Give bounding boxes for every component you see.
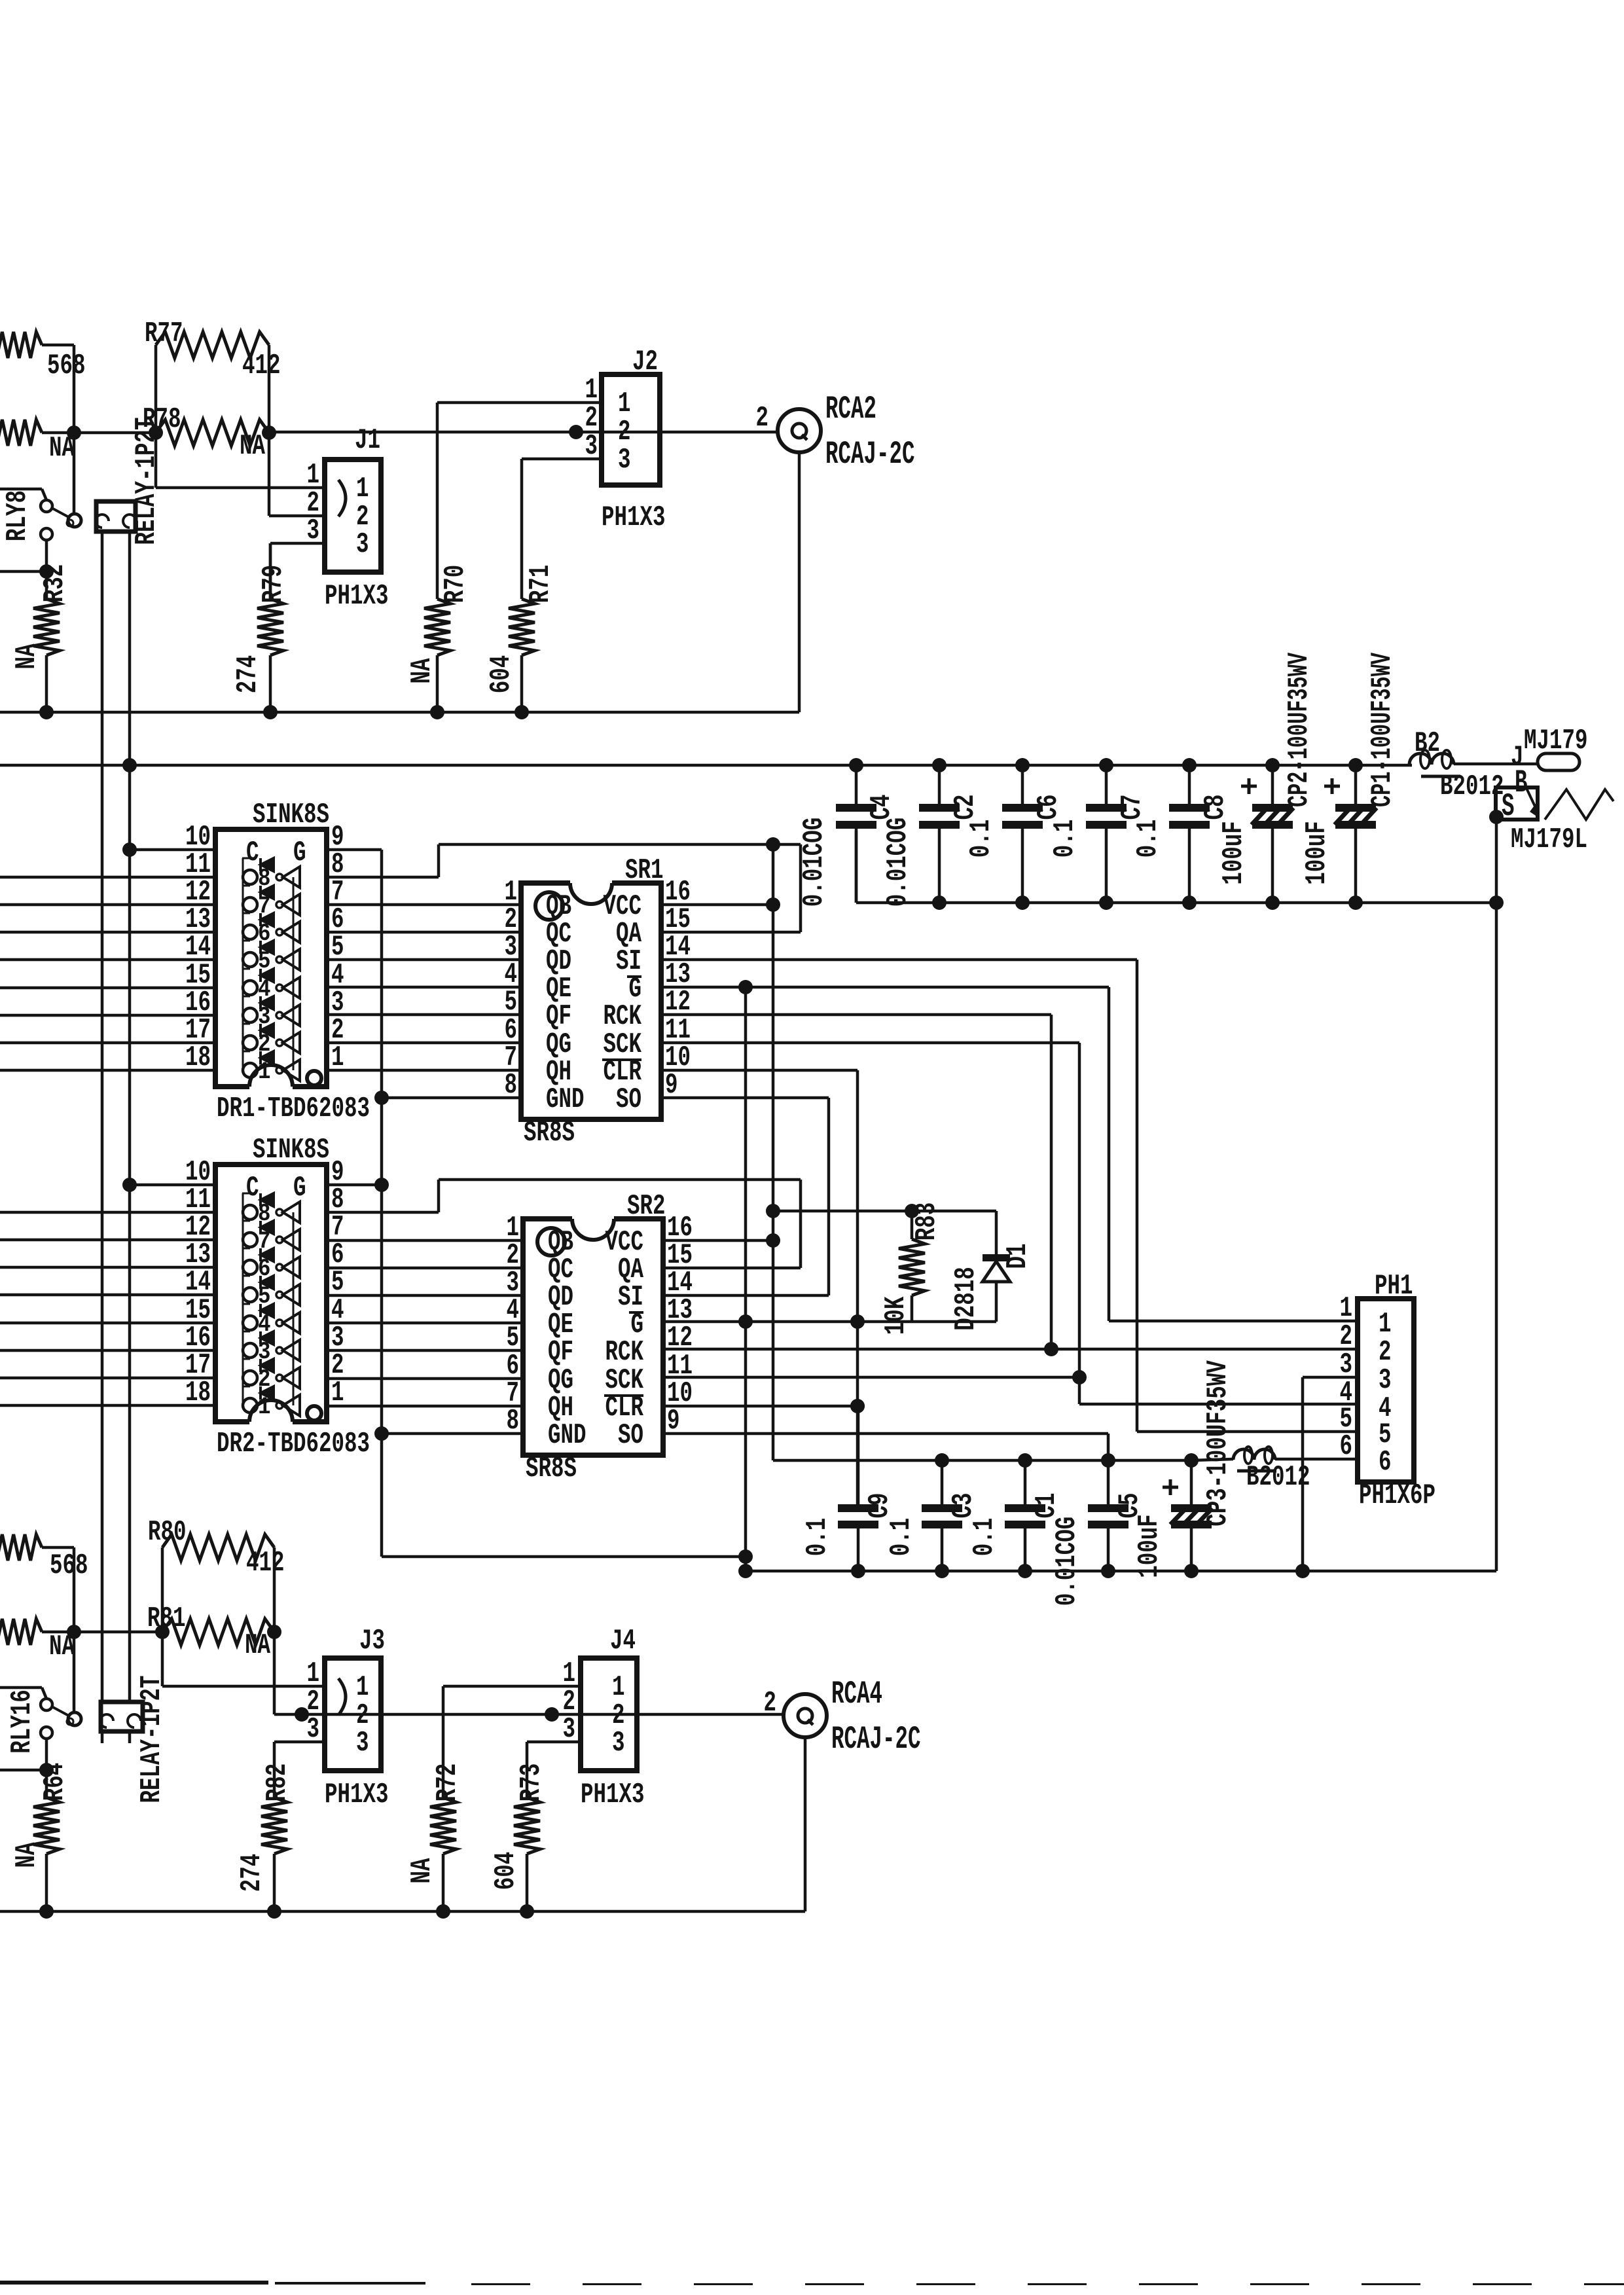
svg-text:NA: NA [240,431,266,463]
label J4 PH1X3 [581,1779,645,1811]
node SR2 VCC junction [766,1233,780,1248]
svg-text:CP2-100UF35WV: CP2-100UF35WV [1284,652,1316,807]
label RELAY-1P2T (bottom relay) [136,1676,168,1803]
node VCC spine top junction [766,837,780,852]
resistor R32 [11,564,71,712]
inductor B2 [1409,728,1504,803]
svg-text:NA: NA [406,658,439,684]
label MJ179L [1511,824,1587,856]
svg-text:R83: R83 [911,1202,943,1241]
wire ground bus bottom section [0,1910,805,1913]
pin numbers PH1 inside [1379,1309,1392,1479]
svg-text:SR8S: SR8S [524,1117,575,1149]
svg-text:RCK: RCK [604,1001,642,1033]
node J2 pin2 dot [569,425,583,439]
pin numbers J4 inside [612,1672,625,1760]
svg-text:6: 6 [1379,1447,1392,1479]
svg-text:PH1: PH1 [1375,1271,1413,1303]
label J3 PH1X3 [325,1779,389,1811]
pin numbers DR1 left [185,822,211,1074]
resistor R73 [490,1763,548,1911]
wire NA row to R81 [42,1631,162,1634]
node R81 right junction [267,1625,281,1639]
node R78 left junction [149,425,163,440]
label DR1-TBD62083 [217,1093,370,1125]
svg-text:3: 3 [563,1714,576,1746]
wire VCC to R83/D1 top [773,1210,996,1213]
wire left edge to RLY16 upper contact [0,1688,46,1699]
svg-text:SR1: SR1 [625,855,664,887]
svg-text:1: 1 [307,460,320,492]
svg-text:RCAJ-2C: RCAJ-2C [825,437,915,473]
svg-text:RCA2: RCA2 [825,392,876,428]
label RCAJ-2C (bottom) [831,1722,921,1758]
wire SR2 CLR row [664,1405,857,1408]
svg-text:C6: C6 [1033,795,1065,820]
wire RLY8 lower contact down [45,540,48,571]
driver DR1 SINK8S box [215,799,329,1091]
svg-text:0.1: 0.1 [965,820,998,858]
wire G vertical to ground [744,987,748,1571]
svg-text:R82: R82 [262,1763,294,1802]
svg-text:J3: J3 [359,1625,385,1657]
svg-text:3: 3 [356,529,369,561]
wire RCA4 down to ground bus [804,1737,807,1911]
shift register SR2 box [523,1191,666,1455]
pin numbers DR1 right [331,822,344,1074]
svg-text:604: 604 [486,655,518,694]
svg-text:1: 1 [612,1672,625,1704]
wire junction to J1 pin2 [269,433,325,516]
wire SR2 SO row [664,1434,1108,1461]
pin numbers J2 outside [585,374,598,463]
svg-text:R64: R64 [39,1763,71,1801]
connector J2 (PH1X3) [602,346,660,485]
svg-text:1: 1 [585,374,598,407]
connector MJ179L switch [1496,766,1614,825]
driver DR2 internal cells [242,1193,300,1421]
svg-text:1: 1 [356,473,369,505]
wire SR2 GND pin8 [382,1432,523,1436]
wire R77 left lead [154,345,158,433]
node RCK junction [1044,1342,1058,1356]
node DR2 pin9 junction [374,1178,389,1192]
wire R77 right lead [268,345,271,433]
node R78 right junction [262,425,276,440]
svg-text:C9: C9 [864,1493,896,1519]
resistor 568 (bottom, partial) [0,1534,88,1582]
node VCC R83 dots [766,1204,919,1218]
svg-text:1: 1 [307,1658,320,1690]
svg-text:NA: NA [245,1630,271,1662]
label J1 PH1X3 [325,581,389,613]
pin numbers SR2 left [507,1212,520,1437]
node SR1 GND junction [374,1091,389,1105]
wire G vertical to PH1 pin1 [1109,987,1358,1321]
svg-text:NA: NA [11,1842,43,1868]
svg-text:3: 3 [356,1727,369,1760]
label DR2-TBD62083 [217,1428,370,1460]
svg-text:G: G [293,837,306,869]
wire J2 pin1 from R70 [437,403,602,599]
svg-text:2: 2 [1340,1321,1353,1353]
wire SR2 SCK row [664,1376,1079,1379]
svg-text:GND: GND [548,1420,586,1452]
resistor R78 [143,404,269,463]
wire J3/J4/RCA4 pin2 net [274,1713,784,1716]
wire J2 pin3 from R71 [522,459,602,599]
svg-text:2: 2 [756,403,769,435]
shift register SR1 box [521,855,664,1119]
connector J4 (PH1X3) [581,1625,637,1771]
svg-text:G: G [293,1172,306,1204]
node SR2 GND junction [374,1426,389,1441]
svg-text:0.1: 0.1 [969,1518,1001,1557]
svg-text:SR2: SR2 [627,1191,666,1223]
svg-text:10K: 10K [880,1296,912,1335]
pin numbers J1 inside [356,473,369,561]
svg-text:QF: QF [548,1337,573,1369]
capacitor C6 [965,765,1065,903]
svg-text:NA: NA [406,1858,439,1884]
svg-text:QF: QF [546,1001,571,1033]
wire coil lead A (long vertical) [101,532,104,1702]
svg-text:568: 568 [47,350,86,382]
capacitor C1 [969,1460,1063,1571]
wire RLY16 lower contact down [45,1739,48,1770]
svg-text:D2818: D2818 [950,1267,983,1331]
wire SR1 SI pin14 to PH1 pin5 [661,960,1358,1432]
wire VCC bus [0,764,1412,767]
svg-text:2: 2 [764,1688,777,1720]
svg-text:J4: J4 [610,1625,636,1657]
resistor 568 (top, partial at page edge) [0,332,86,382]
svg-text:1: 1 [563,1658,576,1690]
node G row junction [738,980,753,994]
pin numbers PH1 outside [1340,1293,1353,1463]
node pin2 net dots [295,1707,559,1722]
wire long net to J2 pin2 and RCA2 [269,431,778,434]
label J2 PH1X3 [602,502,666,534]
connector PH1 box [1358,1271,1414,1482]
svg-text:0.01COG: 0.01COG [799,818,831,907]
capacitor C7 [1049,765,1149,903]
wire R80 left lead [161,1547,164,1632]
node cap ground dots [932,895,1504,910]
wire left edge to R32 junction [0,570,46,573]
pin numbers SR1 right [665,876,691,1102]
wire SR1 CLR pin10 [661,1070,857,1504]
resistor R81 [147,1603,274,1662]
wire DR1 pin10 [130,848,215,852]
svg-text:C: C [246,837,259,869]
relay RLY16 coil box [100,1702,143,1731]
svg-text:RCAJ-2C: RCAJ-2C [831,1722,921,1758]
node DR2 pin10 junction [122,1178,137,1192]
driver DR2 SINK8S box [215,1134,329,1426]
wire SR1 RCK pin12 [661,1015,1051,1349]
svg-text:100uF: 100uF [1301,821,1333,885]
wire NA row to R78 junction [42,431,156,435]
capacitor CP1 electrolytic [1301,652,1399,903]
resistor R77 [145,318,281,382]
svg-text:S: S [1502,789,1515,825]
node MJ179L junction [1489,810,1504,824]
wire SR2 VCC pin16 [664,1239,773,1242]
wire J3 pin3 to R82 [274,1742,325,1798]
relay RLY8 contacts [2,490,69,541]
pin numbers J3 inside [356,1672,369,1760]
resistor R83 [880,1202,943,1335]
svg-text:PH1X6P: PH1X6P [1359,1480,1435,1512]
svg-text:PH1X3: PH1X3 [602,502,666,534]
wire SR1 SO pin9 to SR2 SI [661,1098,829,1295]
svg-text:3: 3 [1379,1365,1392,1397]
node R64 top junction [39,1763,54,1777]
capacitor C9 [802,1406,896,1571]
wire DR1 pin9 GND [327,848,382,852]
pin numbers J3 outside [307,1658,320,1746]
wires DR2 to SR2 direct rows [327,1240,523,1406]
wire J1 pin3 to R79 [270,543,325,599]
node R81 left junction [155,1625,170,1639]
svg-text:SO: SO [616,1084,641,1116]
node VCC bus dot at relay vertical [122,758,137,772]
label RCAJ-2C (top) [825,437,915,473]
wire bottom ground bus [746,1570,1496,1573]
svg-text:PH1X3: PH1X3 [581,1779,645,1811]
wire MJ179L ground spine [1495,817,1498,1571]
svg-text:100uF: 100uF [1134,1514,1166,1578]
svg-text:C: C [246,1172,259,1204]
svg-text:J1: J1 [355,425,380,457]
svg-text:RLY8: RLY8 [2,490,34,541]
svg-text:3: 3 [307,515,320,547]
node bottom bus cap dots [935,1453,1199,1468]
diode D1 [950,1211,1034,1331]
scan artifact bottom edge line [0,2281,1624,2285]
svg-text:DR2-TBD62083: DR2-TBD62083 [217,1428,370,1460]
wire ground bus top section [0,711,799,714]
svg-text:2: 2 [1379,1337,1392,1369]
svg-text:274: 274 [236,1854,268,1892]
svg-text:1: 1 [618,388,631,420]
connector MJ179 tip [1511,725,1588,774]
svg-text:R70: R70 [440,565,472,604]
node R32 top junction [39,564,54,579]
wire R80 right lead [273,1547,276,1632]
node G net dots [738,1314,865,1329]
relay RLY8 coil box [96,501,136,532]
svg-text:R73: R73 [516,1763,548,1802]
wire R81 right junction down [273,1632,276,1714]
svg-text:SR8S: SR8S [526,1453,577,1485]
svg-text:D1: D1 [1002,1244,1034,1269]
svg-text:0.1: 0.1 [886,1518,918,1557]
svg-text:B: B [1515,766,1528,802]
label PH1X6P [1359,1480,1435,1512]
svg-text:CP3-100UF35WV: CP3-100UF35WV [1202,1360,1235,1527]
capacitor C8 [1132,765,1232,903]
resistor R82 [236,1763,294,1911]
pin numbers SR2 right [667,1212,693,1437]
svg-text:C4: C4 [866,795,898,820]
wire bottom VCC bus to PH1 pin6 [773,1459,1358,1460]
resistor NA (top row 2, partial) [0,420,75,465]
wire coil stubs below box [102,1731,130,1743]
capacitor C5 [1051,1460,1146,1606]
wire SR1 VCC pin16 [661,903,773,907]
svg-text:1: 1 [356,1672,369,1704]
pin numbers DR2 left [185,1157,211,1409]
svg-text:R71: R71 [525,565,557,604]
wire pole to NA junction [73,433,76,514]
svg-text:R79: R79 [258,565,290,604]
resistor R79 [232,543,290,712]
node SR1 VCC junction [766,897,780,912]
svg-text:C7: C7 [1117,795,1149,820]
wire B2 to MJ179 [1454,763,1538,766]
label SR2 SR8S [526,1453,577,1485]
svg-text:R72: R72 [432,1763,464,1802]
driver DR1 internal cells [242,858,300,1086]
node 568b junction [67,1625,81,1639]
svg-text:0.01COG: 0.01COG [1051,1517,1083,1606]
pin numbers J1 outside [307,460,320,547]
svg-text:604: 604 [490,1852,522,1890]
svg-text:NA: NA [11,643,43,670]
capacitor C4 [799,765,898,907]
pin numbers SR1 left [505,876,518,1102]
node PH1 pin3 ground dot [1295,1564,1310,1578]
svg-text:3: 3 [618,444,631,477]
resistor R72 [406,1763,464,1911]
capacitor CP3 electrolytic [1134,1360,1235,1578]
pin numbers J2 inside [618,388,631,477]
svg-text:412: 412 [242,350,281,382]
wire SR1 G pin13 [661,986,1109,989]
svg-text:SINK8S: SINK8S [253,799,329,831]
svg-text:100uF: 100uF [1218,821,1250,885]
node CLR junction [850,1399,865,1413]
svg-text:CP1-100UF35WV: CP1-100UF35WV [1367,652,1399,807]
svg-text:C1: C1 [1031,1493,1063,1519]
capacitor CP2 electrolytic [1218,652,1316,903]
wire DR2 pin8 jog to SR2 QA [327,1180,801,1268]
wires DR1 to SR1 direct rows [327,905,521,1070]
svg-text:C3: C3 [948,1493,980,1519]
connector J3 (PH1X3) [325,1625,385,1771]
label RCA2 [825,392,876,428]
node bottom ground dots [851,1564,1199,1578]
wire SR2 G row to PH1 pin1 net [664,1320,996,1324]
svg-text:3: 3 [612,1727,625,1760]
svg-text:SINK8S: SINK8S [253,1134,329,1166]
svg-text:0.1: 0.1 [1049,820,1081,858]
svg-text:GND: GND [546,1084,585,1116]
wire SR2 RCK row / PH1 pin2 [664,1348,1358,1351]
svg-text:MJ179: MJ179 [1524,725,1588,757]
svg-text:RCA4: RCA4 [831,1677,882,1713]
svg-text:RLY16: RLY16 [7,1690,39,1754]
svg-text:3: 3 [307,1714,320,1746]
svg-text:0.1: 0.1 [802,1518,834,1557]
relay RLY8 pole [67,514,81,527]
wire pole to R81 junction [73,1632,76,1712]
svg-text:PH1X3: PH1X3 [325,1779,389,1811]
wire SR1 GND pin8 [382,1096,521,1100]
svg-text:274: 274 [232,655,264,694]
resistor R80 [148,1517,285,1580]
label RCA4 [831,1677,882,1713]
wire DR2 pin9 GND [327,1184,382,1187]
svg-text:0.1: 0.1 [1132,820,1164,858]
svg-text:RELAY-1P2T: RELAY-1P2T [136,1676,168,1803]
svg-text:B2012: B2012 [1246,1462,1310,1494]
wire RCA2 down to ground bus [798,452,801,712]
capacitor C3 [886,1460,980,1571]
resistor NA (bottom, partial) [0,1619,75,1663]
svg-text:R80: R80 [148,1517,187,1549]
wire GND to bottom bus [382,1555,746,1559]
svg-text:C8: C8 [1200,795,1232,820]
wire left edge to R64 junction [0,1769,46,1772]
node bus dots top ground [39,705,529,719]
wire left edge to RLY8 upper contact [0,489,46,500]
label RELAY-1P2T (top relay) [131,418,163,545]
label SR1 SR8S [524,1117,575,1149]
resistor R71 [486,565,557,712]
wire cap-bank ground bus [856,831,1496,903]
svg-text:B2: B2 [1415,728,1440,760]
wire J1 pin1 [156,486,325,490]
wires DR1 output pins 11-18 to page edge [0,877,215,1070]
svg-text:SO: SO [618,1420,643,1452]
capacitor C2 [882,765,982,907]
svg-text:RCK: RCK [605,1337,644,1369]
relay RLY16 contacts [7,1690,69,1754]
wire PH1 pin3 stub to ground [1303,1377,1358,1571]
resistor R70 [406,565,472,712]
pin numbers J4 outside [563,1658,576,1746]
node G ground dots [738,1549,753,1578]
wire VCC spine vertical [772,844,775,1460]
svg-text:R32: R32 [39,564,71,603]
wire 568b vertical [73,1547,76,1632]
svg-text:3: 3 [585,431,598,463]
relay RLY16 pole [67,1712,81,1726]
connector RCA2 jack [756,403,821,452]
wires DR2 output pins 11-18 to page edge [0,1212,215,1405]
resistor R64 [11,1763,71,1911]
wire J4 pin1 from R72 [443,1686,581,1798]
connector J1 (PH1X3) [325,425,381,572]
wire J4 pin3 from R73 [527,1742,581,1798]
wire DR2 pin10 [130,1184,215,1187]
wire coil lead B (long vertical) [128,532,132,1702]
node SCK junction [1072,1370,1087,1384]
node VCC bus cap dots [849,758,1363,772]
node GND corner junction [0,0,1,1]
svg-text:2: 2 [585,403,598,435]
node DR1 pin10 junction [122,842,137,857]
svg-text:J2: J2 [632,346,658,378]
svg-text:568: 568 [50,1550,88,1582]
svg-text:412: 412 [246,1547,285,1580]
connector RCA4 jack [764,1688,827,1737]
svg-text:PH1X3: PH1X3 [325,581,389,613]
svg-text:1: 1 [1379,1309,1392,1341]
